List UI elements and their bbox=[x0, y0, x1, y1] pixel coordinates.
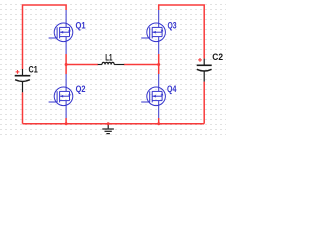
svg-text:Q1: Q1 bbox=[76, 19, 86, 30]
svg-text:C1: C1 bbox=[29, 64, 38, 75]
svg-text:Q2: Q2 bbox=[76, 83, 86, 94]
svg-text:Q4: Q4 bbox=[167, 83, 177, 94]
svg-text:C2: C2 bbox=[212, 51, 223, 62]
svg-text:Q3: Q3 bbox=[168, 20, 177, 31]
svg-text:L1: L1 bbox=[105, 51, 112, 62]
